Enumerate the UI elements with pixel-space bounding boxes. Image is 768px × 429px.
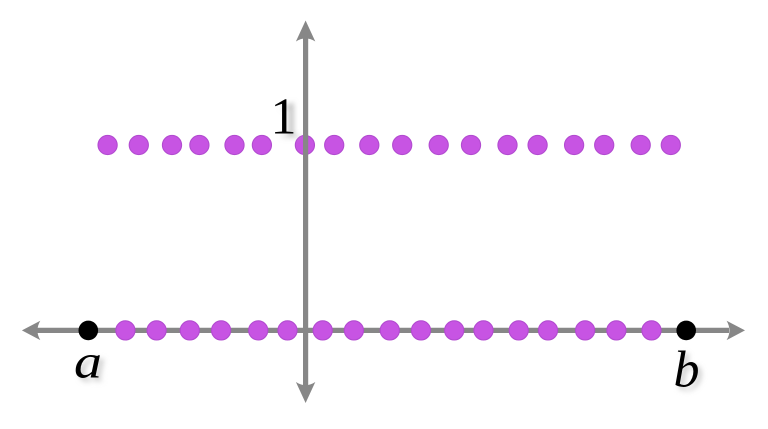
- svg-text:b: b: [674, 341, 700, 398]
- svg-text:a: a: [74, 336, 102, 389]
- svg-text:1: 1: [271, 89, 297, 146]
